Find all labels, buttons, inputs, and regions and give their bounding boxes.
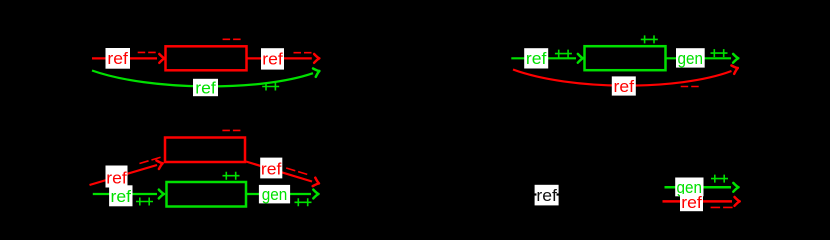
marker -- above box B3 [222,129,240,131]
svg-text:ref: ref [536,186,557,205]
marker -- on red output wire (tilted) [286,168,307,174]
wire: green gen arrow (bottom-right) [665,186,732,189]
wire: red diagonal input (bottom-left) [90,165,158,185]
arrowhead into box B1 [159,54,164,63]
wire: green output line (top-right) [667,57,732,59]
svg-text:ref: ref [614,77,635,96]
node label gen (output, green) [676,48,705,68]
box B4 (green rectangle, bottom-left) [167,182,247,207]
marker ++ on output wire (top-right) [711,49,728,57]
arrowhead green output (top-right) [733,54,738,63]
arrowhead red ref (bottom-right) [735,197,740,206]
marker ++ on green input wire (bottom-left) [136,198,153,206]
box B2 (green rectangle, top-right) [585,46,666,70]
arrowhead red curve (top-right) [731,64,739,74]
arrowhead green gen (bottom-right) [733,183,738,192]
marker -- on red input wire (tilted) [139,157,160,163]
node label ref (input, red) [106,48,131,69]
node label ref (red curve) [612,76,636,95]
marker ++ on input wire (top-right) [555,50,572,58]
node label ref (red output, bottom-left) [260,158,282,179]
marker ++ above box B2 [641,35,658,43]
wire: red ref arrow (bottom-right) [663,200,733,203]
node label ref (green curve) [193,79,218,98]
wire: green output line (bottom-left) [247,193,311,195]
node label ref (input, green) [524,48,548,68]
wire: green bypass curve (top-left) [92,71,313,87]
marker ++ on green output wire (bottom-left) [295,198,312,206]
svg-text:ref: ref [262,49,283,68]
box B1 (red rectangle, top-left) [166,46,247,70]
node label ref (black, bottom-right) [535,185,559,206]
wire: red diagonal output (bottom-left) [246,162,312,182]
wire: red output line (top-left) [248,57,312,59]
marker -- above box B1 [223,38,241,40]
arrowhead green curve (top-left) [313,67,321,77]
marker -- on output wire [294,52,312,54]
node label ref (green input, bottom-left) [109,185,132,206]
svg-text:ref: ref [261,159,282,178]
svg-text:gen: gen [678,49,704,68]
wire: green input line (bottom-left) [93,193,157,195]
svg-text:ref: ref [681,193,702,212]
svg-text:ref: ref [526,49,547,68]
marker -- on red curve [681,86,699,88]
svg-text:ref: ref [106,169,127,188]
arrowhead into box B2 [578,54,583,63]
svg-text:ref: ref [195,79,216,98]
box B3 (red rectangle, bottom-left) [165,138,245,163]
marker ++ on green curve [262,83,279,91]
svg-text:ref: ref [111,187,132,206]
node label ref (red input, bottom-left) [106,166,128,188]
node label ref (output, red) [261,48,284,69]
arrowhead green output (bottom-left) [313,190,318,199]
arrowhead red output (top-left) [314,54,319,63]
marker -- below ref arrow [711,206,733,208]
wire: red bypass curve (top-right) [513,70,732,86]
marker -- on input wire [138,51,156,53]
node label ref (red, bottom-right) [680,193,703,212]
arrowhead into box B4 [159,190,164,199]
arrowhead into box B3 [156,159,163,169]
node label gen (green output, bottom-left) [259,185,290,204]
wire stub: black line through ref label [532,193,537,195]
svg-text:gen: gen [262,185,288,204]
wire: green input line (top-right) [511,57,576,59]
arrowhead red output (bottom-left) [313,178,321,188]
wire: red input line (top-left) [92,57,157,59]
marker ++ above box B4 [223,172,240,180]
marker ++ on gen arrow [711,175,728,183]
svg-text:ref: ref [107,49,128,68]
node label gen (bottom-right) [675,178,703,197]
